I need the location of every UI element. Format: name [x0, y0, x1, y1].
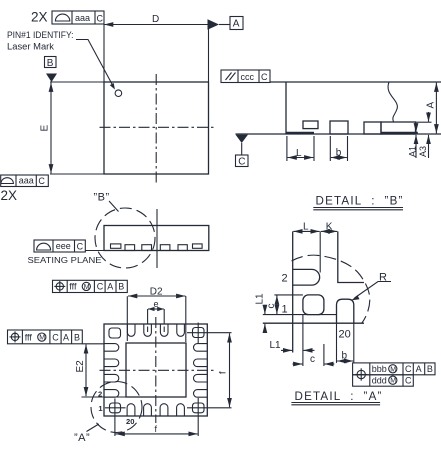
lead (elevated flat) 1	[111, 244, 121, 248]
pin 2 slot (horizontal)	[293, 269, 320, 285]
pad left edge extension down	[302, 315, 304, 366]
leader R with arrow	[355, 282, 392, 299]
pin20 slot extensions down	[336, 323, 338, 363]
frame leader / E2 top extension	[82, 343, 104, 345]
dimension A line	[435, 83, 437, 134]
lead 4	[160, 245, 170, 251]
dimension c (bottom, arrows outside)	[293, 363, 303, 365]
horizontal centerline	[100, 126, 214, 128]
detail boundary dashed arc	[292, 255, 370, 323]
wire: bottom edge extension to E dimension	[50, 173, 104, 175]
vertical centerline	[156, 209, 158, 268]
dimension L1 (bottom, arrows outside)	[281, 349, 292, 351]
corner pad bottom-right	[193, 403, 205, 413]
svg-text:ccc: ccc	[241, 72, 255, 82]
svg-text:”A”: ”A”	[74, 432, 90, 444]
datum C filled triangle	[236, 135, 249, 143]
break squiggle line	[388, 82, 397, 122]
svg-text:DETAIL : ”B”: DETAIL : ”B”	[316, 195, 404, 208]
detail A dashed circle	[91, 382, 142, 433]
left slots (pins)	[104, 344, 119, 352]
feature control frame [pos fffM C A B] (top)	[53, 280, 128, 292]
svg-text:C: C	[77, 241, 84, 251]
svg-text:SEATING PLANE: SEATING PLANE	[28, 255, 102, 265]
svg-text:2X: 2X	[1, 188, 18, 203]
terminal rect (right, broken)	[381, 122, 416, 134]
svg-text:b: b	[336, 148, 342, 159]
svg-text:aaa: aaa	[75, 13, 90, 23]
extension lines D2	[185, 296, 187, 342]
lead profile rect (floating)	[303, 121, 318, 129]
svg-text:ddd: ddd	[372, 376, 387, 386]
dimension b	[337, 360, 353, 362]
feature control frame [profile eee C]	[34, 240, 85, 252]
svg-text:M: M	[390, 378, 396, 385]
wire to datum C box	[241, 143, 243, 155]
leader: pin1 identify callout	[76, 40, 113, 87]
bottom slots (pins)	[127, 404, 135, 416]
corner pad bottom-left	[110, 403, 121, 413]
svg-text:M: M	[390, 366, 396, 373]
svg-text:D: D	[152, 14, 159, 25]
svg-text:e: e	[154, 299, 159, 309]
dimension K line	[321, 230, 337, 232]
datum A arrow (large filled)	[208, 19, 220, 30]
svg-text:f: f	[218, 371, 228, 374]
svg-text:DETAIL : ”A”: DETAIL : ”A”	[295, 390, 383, 403]
extension line lead top right	[416, 121, 432, 123]
svg-text:A: A	[416, 364, 422, 374]
package body outline (top view)	[104, 82, 209, 174]
exposed pad corner	[338, 231, 364, 282]
svg-text:eee: eee	[56, 241, 71, 251]
top slots (pins)	[127, 324, 135, 336]
dimension D line	[104, 24, 208, 26]
pin1 laser mark circle	[115, 90, 122, 97]
svg-text:C: C	[52, 332, 59, 342]
dimension L1 (left vertical, arrows outside)	[264, 305, 266, 314]
dimension E2 line	[85, 344, 87, 396]
svg-text:1: 1	[282, 304, 288, 316]
lead (elevated flat) 6	[193, 244, 203, 248]
svg-text:2X: 2X	[31, 10, 48, 25]
corner pad top-right	[193, 328, 205, 338]
svg-text:L: L	[296, 148, 302, 159]
dimension E line	[50, 83, 52, 174]
svg-text:A: A	[233, 19, 240, 30]
crosshair TR pad / f extension	[187, 332, 232, 334]
svg-text:fff: fff	[25, 332, 33, 342]
svg-text:A: A	[107, 282, 113, 292]
crosshair BR pad / f extensions	[187, 407, 232, 409]
dimension c (left vertical)	[276, 296, 278, 315]
E2 bottom extension	[82, 396, 127, 398]
seating plane extension line	[85, 250, 104, 252]
dimension b line	[331, 157, 347, 159]
feature control frame [pos fffM C A B] (left)	[8, 330, 83, 344]
wire: body top line	[270, 81, 441, 83]
exposed pad outline	[126, 343, 186, 397]
double underline	[313, 207, 403, 209]
svg-text:1: 1	[98, 404, 103, 413]
svg-text:B: B	[118, 282, 124, 292]
svg-text:bbb: bbb	[372, 364, 387, 374]
vertical centerline	[155, 317, 157, 423]
leader to A label	[87, 424, 99, 432]
svg-text:Laser Mark: Laser Mark	[7, 42, 55, 52]
svg-text:M: M	[84, 284, 90, 291]
crosshair BL pad / f extension	[105, 407, 126, 409]
svg-text:K: K	[326, 221, 333, 232]
package left edge	[292, 231, 294, 352]
dimension D2 line	[128, 295, 185, 297]
datum A box	[230, 17, 243, 30]
horizontal centerline	[100, 369, 214, 371]
svg-text:f: f	[155, 424, 158, 434]
svg-text:20: 20	[126, 417, 134, 426]
pin 1 corner pad	[303, 295, 324, 315]
vertical centerline	[155, 74, 157, 184]
lead foot bold bar	[286, 132, 314, 135]
extension lines e	[147, 309, 149, 324]
pin 20 slot (vertical)	[337, 299, 354, 323]
svg-text:D2: D2	[150, 286, 163, 297]
dimension A1 arrows	[415, 123, 417, 132]
extension lines for L	[286, 136, 288, 161]
svg-text:B: B	[47, 58, 54, 69]
svg-text:C: C	[238, 156, 245, 167]
svg-text:C: C	[405, 376, 412, 386]
extension lines for b	[329, 136, 331, 161]
svg-text:M: M	[39, 335, 45, 342]
lead profile rect 2	[330, 121, 348, 134]
pad right edge extension down	[323, 344, 325, 366]
svg-text:L1: L1	[270, 340, 282, 351]
svg-text:b: b	[342, 351, 348, 362]
svg-text:c: c	[266, 304, 277, 309]
svg-text:E: E	[40, 125, 51, 132]
combined frame [pos bbbM C A B / dddM C]	[353, 363, 435, 386]
wire: body left edge	[285, 82, 287, 134]
leader to B label	[109, 201, 119, 212]
svg-text:A: A	[425, 102, 436, 109]
lead 5	[178, 245, 187, 251]
svg-text:C: C	[261, 72, 268, 82]
dimension L line	[288, 157, 314, 159]
pad top extension	[274, 294, 303, 296]
feature control frame [profile aaa C] (bottom left)	[1, 175, 49, 187]
lead 2	[125, 245, 135, 251]
svg-text:fff: fff	[69, 282, 77, 292]
svg-text:B: B	[427, 364, 433, 374]
double underline	[291, 402, 380, 404]
svg-text:PIN#1 IDENTIFY:: PIN#1 IDENTIFY:	[7, 30, 74, 40]
dimension L line	[293, 230, 319, 232]
datum C box	[236, 155, 249, 167]
dimension f (right)	[229, 333, 231, 407]
svg-text:”B”: ”B”	[94, 192, 110, 204]
svg-text:2: 2	[98, 389, 102, 398]
svg-text:aaa: aaa	[19, 176, 34, 186]
terminal bold bottom bar	[381, 132, 418, 135]
right slots (pins)	[194, 344, 208, 352]
detail B dashed circle	[95, 208, 155, 268]
svg-text:E2: E2	[75, 360, 86, 373]
lead 3	[142, 245, 152, 251]
svg-text:2: 2	[282, 273, 288, 285]
svg-text:A3: A3	[418, 146, 428, 157]
pad bottom extension through pin1	[263, 314, 337, 316]
outer body outline	[104, 324, 207, 416]
svg-text:C: C	[38, 176, 45, 186]
svg-text:B: B	[74, 332, 80, 342]
lead profile rect 3	[364, 122, 381, 134]
feature control frame [parallel ccc C]	[221, 70, 270, 83]
feature control frame [profile aaa C] (top)	[52, 11, 104, 24]
extension line body right edge up to D dimension	[208, 25, 210, 83]
svg-text:C: C	[97, 282, 104, 292]
dimension e	[148, 308, 164, 310]
wire to datum A box	[219, 24, 230, 26]
svg-text:c: c	[310, 354, 315, 365]
package bottom edge	[263, 322, 364, 324]
extension line L/K	[319, 231, 321, 272]
wire: top edge extension to datum B	[50, 81, 104, 83]
svg-text:A: A	[63, 332, 69, 342]
datum B box	[45, 57, 57, 68]
dimension f (bottom)	[116, 433, 198, 435]
wire: seating plane line	[236, 133, 441, 135]
svg-text:A1: A1	[407, 146, 417, 157]
datum B filled triangle	[46, 74, 57, 83]
svg-text:L: L	[303, 221, 309, 232]
svg-text:C: C	[405, 364, 412, 374]
svg-text:C: C	[97, 13, 104, 23]
extension line from frame to body left edge	[103, 25, 105, 83]
corner pad top-left	[109, 328, 121, 338]
body outline	[104, 226, 209, 251]
svg-text:L1: L1	[254, 293, 265, 305]
dimension A3 arrows	[428, 112, 430, 122]
svg-text:20: 20	[339, 329, 351, 341]
